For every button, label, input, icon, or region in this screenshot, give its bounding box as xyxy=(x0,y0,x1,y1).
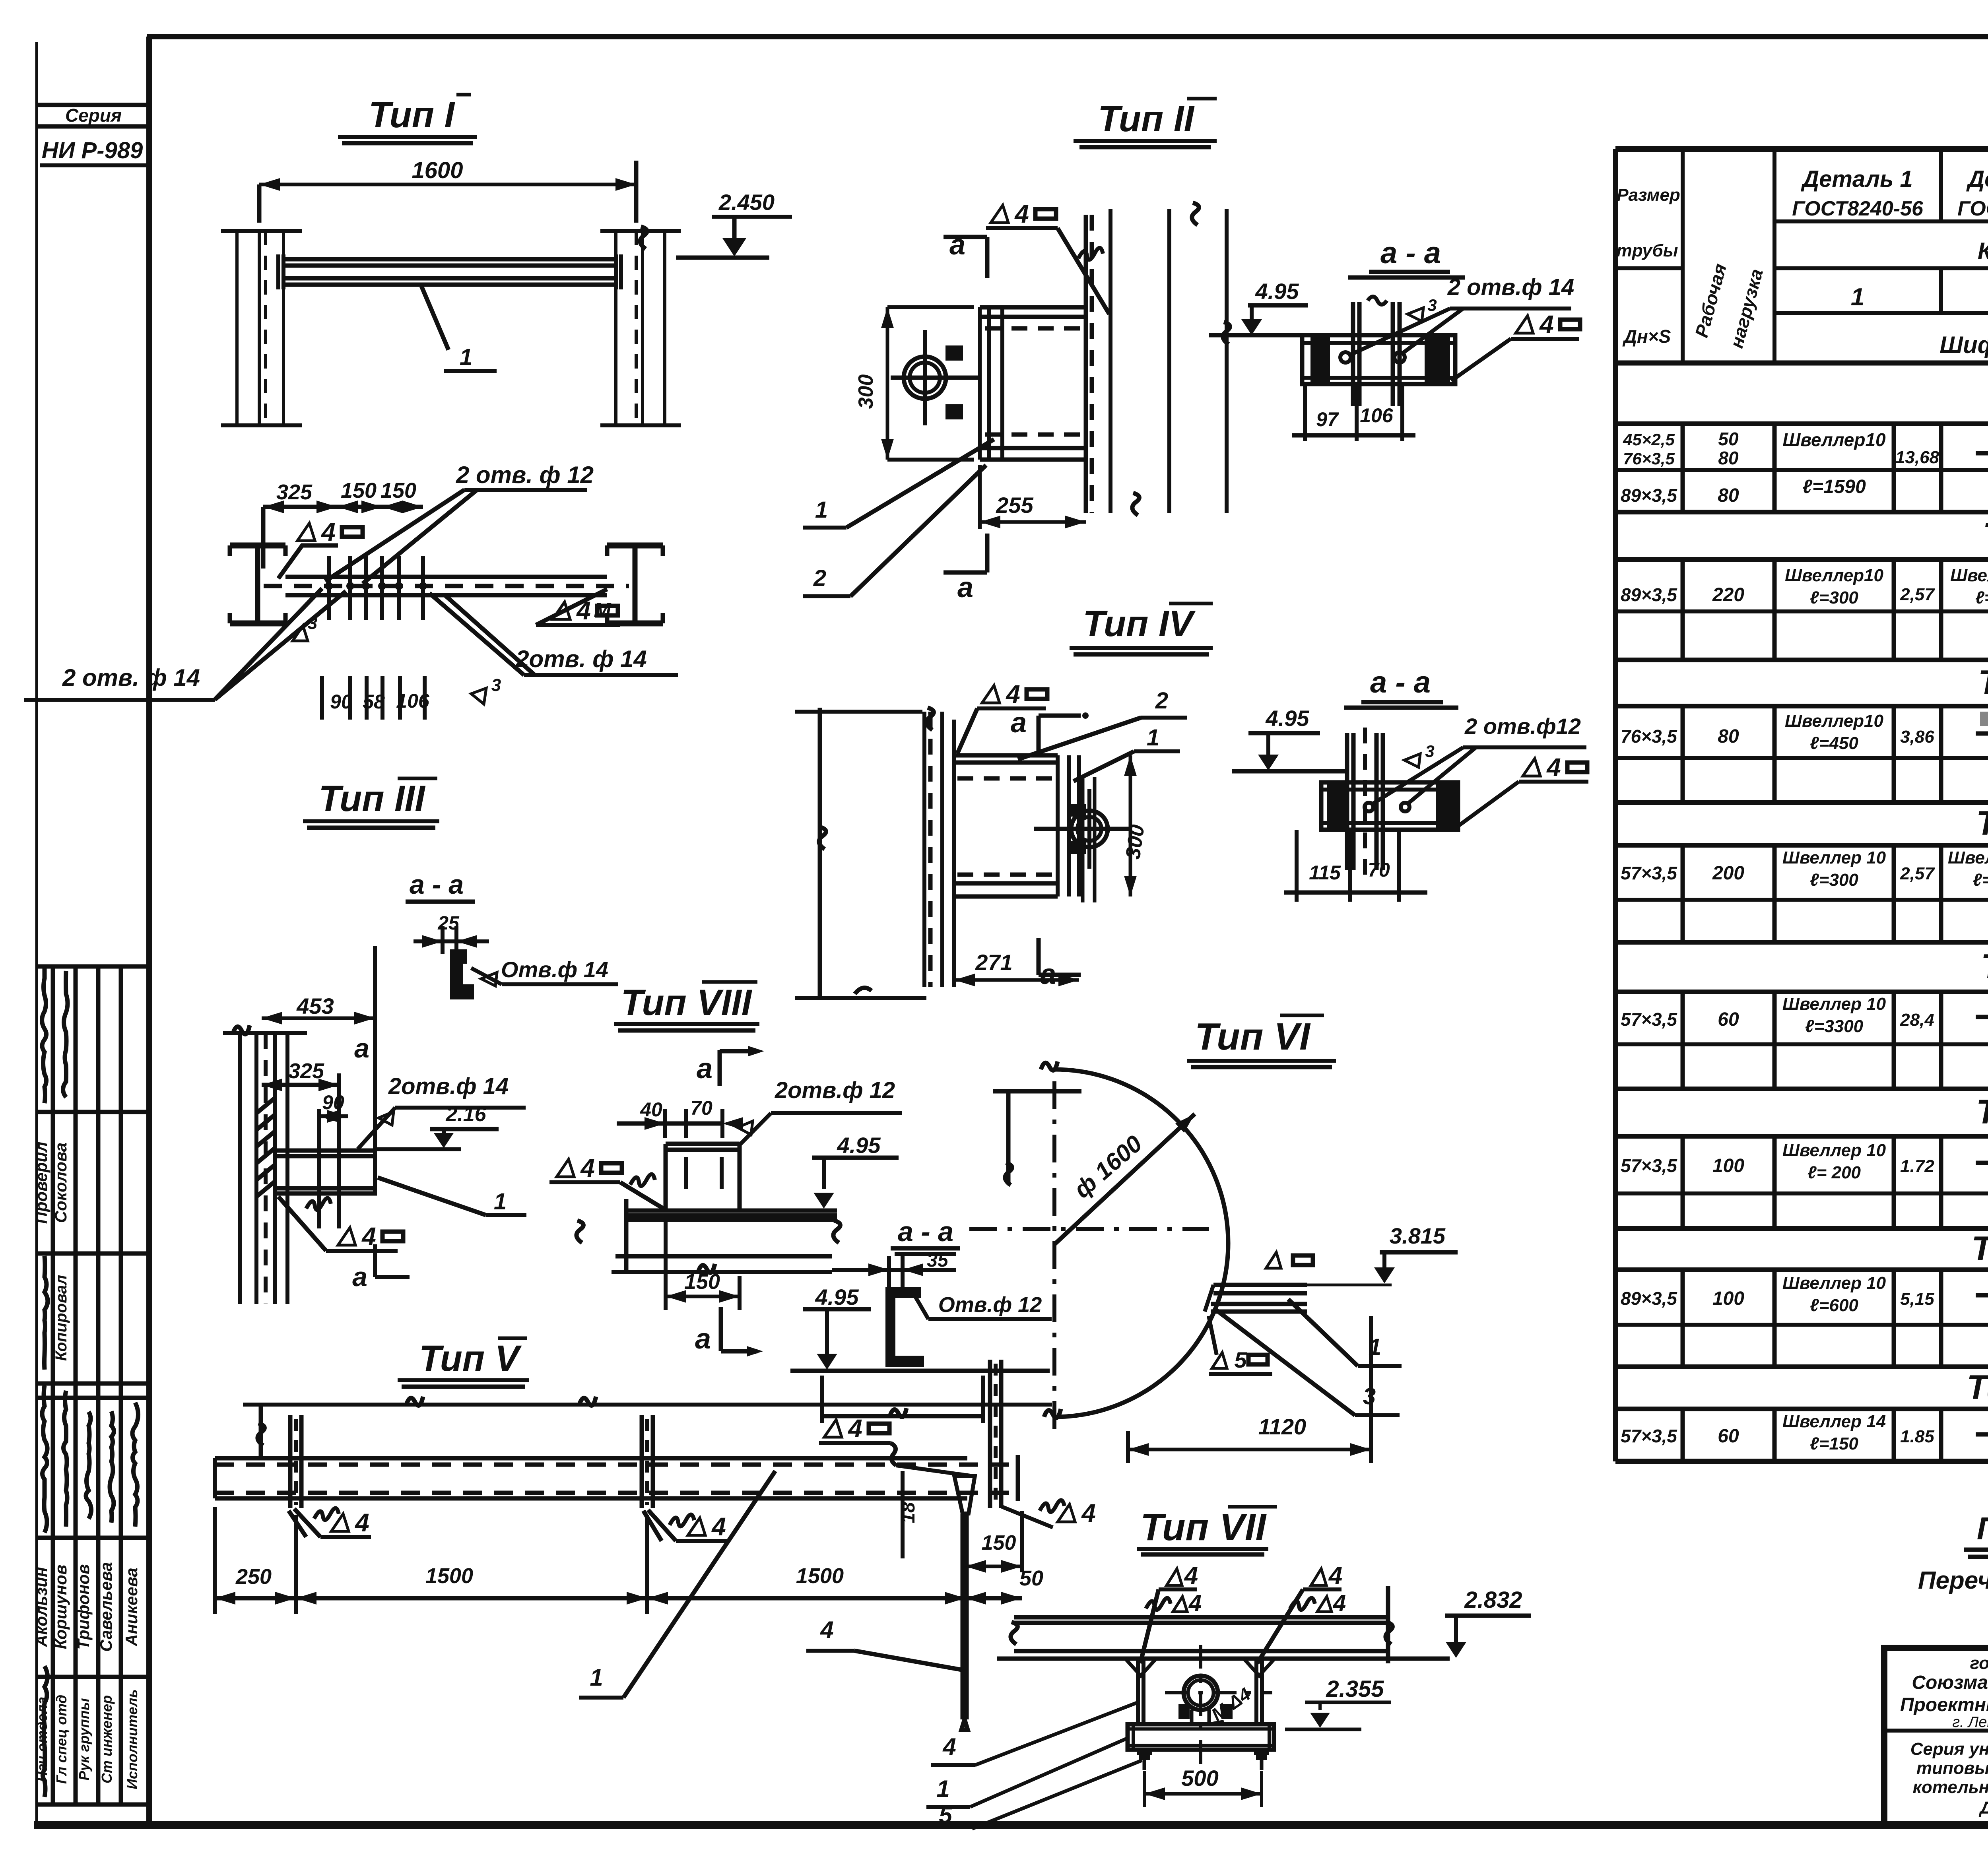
Tip III small channel section xyxy=(452,951,472,998)
svg-text:2 отв. ф 12: 2 отв. ф 12 xyxy=(456,462,594,488)
svg-text:a: a xyxy=(697,1053,712,1085)
svg-text:150: 150 xyxy=(684,1270,720,1294)
svg-text:57×3,5: 57×3,5 xyxy=(1621,863,1677,883)
svg-text:3,86: 3,86 xyxy=(1900,727,1934,747)
svg-text:ГОСТ8240-56: ГОСТ8240-56 xyxy=(1792,197,1924,220)
svg-text:57×3,5: 57×3,5 xyxy=(1621,1009,1677,1030)
svg-text:Швеллер 10: Швеллер 10 xyxy=(1948,848,1988,867)
svg-text:5: 5 xyxy=(1234,1347,1247,1372)
Tip VI bracket channel xyxy=(1213,1283,1307,1287)
svg-text:a: a xyxy=(1011,707,1027,739)
svg-text:Швеллер 10: Швеллер 10 xyxy=(1782,1273,1886,1293)
svg-text:a - a: a - a xyxy=(1380,236,1441,270)
svg-text:100: 100 xyxy=(1712,1288,1744,1309)
svg-text:ℓ=1590: ℓ=1590 xyxy=(1802,476,1866,497)
svg-text:трубы: трубы xyxy=(1617,241,1678,260)
svg-text:57×3,5: 57×3,5 xyxy=(1621,1426,1677,1446)
Tip VI vessel corner lines xyxy=(993,1089,1081,1094)
svg-text:2: 2 xyxy=(813,565,826,591)
svg-text:4: 4 xyxy=(1333,1590,1346,1616)
svg-text:ℓ=600: ℓ=600 xyxy=(1810,1296,1858,1315)
svg-text:Д К В Р: Д К В Р xyxy=(1978,1798,1988,1818)
svg-text:2 отв.ф12: 2 отв.ф12 xyxy=(1464,714,1581,739)
svg-text:Швеллер 10: Швеллер 10 xyxy=(1782,848,1886,867)
svg-text:a: a xyxy=(957,572,973,603)
title block frame xyxy=(1884,1648,1988,1824)
Tip II a-a weld tag d4 xyxy=(1516,316,1533,333)
svg-text:89×3,5: 89×3,5 xyxy=(1621,1288,1677,1309)
svg-text:Тип VI: Тип VI xyxy=(1976,1093,1988,1131)
Tip IV U-bolt clamp xyxy=(1071,811,1108,847)
svg-text:4.95: 4.95 xyxy=(837,1133,881,1158)
svg-text:ℓ=300: ℓ=300 xyxy=(1810,870,1858,890)
Tip IV a-a weld 3 xyxy=(1404,754,1420,767)
svg-text:150: 150 xyxy=(341,479,377,503)
Tip V weld 1 xyxy=(314,1508,339,1520)
svg-text:106: 106 xyxy=(1360,404,1394,427)
svg-text:1600: 1600 xyxy=(412,157,463,183)
sidebar signature scribbles xyxy=(42,966,47,1103)
svg-text:2отв.ф 14: 2отв.ф 14 xyxy=(388,1073,509,1099)
Tip I plan: right I-beam section xyxy=(607,543,663,549)
Tip V weld 2 xyxy=(670,1514,694,1526)
svg-text:г. Ленинерад 1970 г.: г. Ленинерад 1970 г. xyxy=(1952,1714,1988,1731)
Tip VI centerlines xyxy=(1052,1081,1056,1439)
svg-text:4: 4 xyxy=(320,518,336,546)
Tip IV a-a channel xyxy=(1321,782,1458,830)
Tip V stub 1 xyxy=(290,1415,301,1508)
svg-text:1: 1 xyxy=(936,1775,949,1802)
svg-text:3.815: 3.815 xyxy=(1390,1223,1446,1248)
svg-text:Тип I: Тип I xyxy=(369,95,456,135)
svg-text:4: 4 xyxy=(1328,1562,1342,1589)
svg-text:45×2,5: 45×2,5 xyxy=(1623,430,1675,449)
svg-text:4: 4 xyxy=(580,1154,595,1182)
outer paper edge line (left) xyxy=(35,42,38,1825)
svg-text:Отв.ф 12: Отв.ф 12 xyxy=(938,1293,1042,1317)
svg-text:Тип IV: Тип IV xyxy=(1083,603,1196,644)
series box mid line xyxy=(37,124,149,129)
Tip I plan hole marks xyxy=(327,556,331,620)
svg-text:500: 500 xyxy=(1181,1766,1218,1791)
svg-text:76×3,5: 76×3,5 xyxy=(1623,449,1675,468)
Tip VII beam xyxy=(1014,1615,1388,1620)
svg-text:a - a: a - a xyxy=(898,1216,953,1247)
Tip I weld 3 marks xyxy=(293,626,308,641)
svg-text:4.95: 4.95 xyxy=(1255,279,1299,304)
Tip VII centerlines xyxy=(1199,1645,1202,1767)
svg-text:80: 80 xyxy=(1718,726,1739,747)
svg-text:325: 325 xyxy=(276,480,313,504)
Tip VIII a-a channel xyxy=(887,1288,922,1365)
svg-text:a: a xyxy=(949,229,965,261)
Tip III weld M + d4 xyxy=(306,1198,331,1210)
frame bottom border xyxy=(34,1821,1988,1829)
Tip II bracket beam xyxy=(980,305,1086,310)
svg-text:Швеллер 10: Швеллер 10 xyxy=(1782,994,1886,1014)
Tip V pipe beam xyxy=(215,1456,967,1461)
svg-text:89×3,5: 89×3,5 xyxy=(1621,584,1677,605)
Tip II a-a channel xyxy=(1302,335,1455,384)
Tip III small weld+text Otv f14 xyxy=(481,972,497,986)
svg-text:ℓ=3300: ℓ=3300 xyxy=(1805,1017,1864,1036)
svg-text:89×3,5: 89×3,5 xyxy=(1621,485,1677,506)
svg-text:Серия: Серия xyxy=(65,105,122,126)
Tip II a-a holes xyxy=(1340,352,1351,363)
svg-text:Перечень опор см. лист: Перечень опор см. лист ку - 4. xyxy=(1918,1567,1988,1594)
svg-text:Тип V: Тип V xyxy=(1981,947,1988,986)
svg-text:1.85: 1.85 xyxy=(1900,1427,1934,1446)
svg-text:1: 1 xyxy=(590,1664,603,1691)
svg-text:453: 453 xyxy=(296,993,334,1019)
svg-text:3: 3 xyxy=(1425,742,1434,761)
series box top line xyxy=(37,103,149,107)
svg-text:97: 97 xyxy=(1316,408,1339,431)
svg-text:Тип III: Тип III xyxy=(318,778,426,819)
svg-text:60: 60 xyxy=(1718,1426,1739,1447)
Tip II end plate xyxy=(980,307,1002,460)
svg-text:Швеллер10: Швеллер10 xyxy=(1785,566,1884,585)
Tip IV a-a pipe lines xyxy=(1347,733,1383,870)
svg-text:255: 255 xyxy=(996,493,1033,518)
svg-text:271: 271 xyxy=(975,950,1012,975)
svg-text:2.450: 2.450 xyxy=(718,190,775,215)
svg-text:60: 60 xyxy=(1718,1009,1739,1030)
Tip I plan: left I-beam section xyxy=(230,543,285,549)
svg-text:150: 150 xyxy=(982,1531,1016,1554)
Tip III bracket channel xyxy=(275,1149,377,1153)
svg-text:1500: 1500 xyxy=(796,1564,844,1588)
svg-text:ℓ=250: ℓ=250 xyxy=(1975,588,1988,607)
svg-text:Тип VIII: Тип VIII xyxy=(1967,1368,1988,1407)
svg-text:250: 250 xyxy=(235,1565,272,1589)
svg-text:2,57: 2,57 xyxy=(1900,585,1935,604)
svg-text:4: 4 xyxy=(711,1512,726,1541)
svg-text:200: 200 xyxy=(1712,863,1744,884)
svg-text:4: 4 xyxy=(1188,1590,1202,1616)
Tip III wall hatch xyxy=(256,1098,275,1113)
Tip VI bracket top extension line xyxy=(1307,1284,1392,1286)
svg-text:90: 90 xyxy=(322,1091,344,1114)
svg-text:4: 4 xyxy=(1014,200,1029,228)
svg-text:Тип VI: Тип VI xyxy=(1195,1015,1311,1058)
svg-text:Деталь 2: Деталь 2 xyxy=(1966,166,1988,192)
svg-text:80: 80 xyxy=(1718,448,1739,468)
svg-text:Шифр изделия. Вес 1 штуки: Шифр изделия. Вес 1 штуки Б кг xyxy=(1939,332,1988,358)
svg-text:50: 50 xyxy=(1019,1566,1043,1590)
svg-text:Тип VII: Тип VII xyxy=(1971,1230,1988,1268)
svg-text:2 отв.ф 14: 2 отв.ф 14 xyxy=(1447,274,1574,300)
svg-text:Серия унифицированных: Серия унифицированных xyxy=(1910,1739,1988,1759)
svg-text:2отв.ф 12: 2отв.ф 12 xyxy=(775,1077,895,1103)
svg-text:300: 300 xyxy=(854,374,878,409)
Tip IV bracket beam xyxy=(954,753,1058,758)
svg-text:4: 4 xyxy=(1005,680,1020,708)
Tip VII weld tag left xyxy=(1167,1569,1182,1585)
Tip VI weld tag bottom d5 xyxy=(1212,1352,1227,1368)
svg-text:Тип VII: Тип VII xyxy=(1140,1506,1267,1548)
svg-text:ℓ=450: ℓ=450 xyxy=(1810,733,1858,753)
svg-text:76×3,5: 76×3,5 xyxy=(1621,726,1677,747)
svg-text:ℓ= 200: ℓ= 200 xyxy=(1807,1163,1861,1182)
frame left border xyxy=(146,37,152,1828)
svg-text:Союзмашстройпроект: Союзмашстройпроект xyxy=(1912,1672,1988,1693)
Tip VII plate xyxy=(1128,1724,1274,1750)
sidebar signature table grid xyxy=(37,964,149,969)
Tip II a-a weld 3 xyxy=(1408,308,1423,321)
svg-text:1: 1 xyxy=(1147,725,1159,751)
svg-text:Проверил: Проверил xyxy=(32,1142,50,1224)
Tip VI radius arrow f1600 xyxy=(1054,1114,1195,1244)
Tip IV weld tag d4 xyxy=(982,685,1000,703)
Tip VII hanger angles xyxy=(1138,1659,1143,1724)
svg-text:13,68: 13,68 xyxy=(1895,448,1939,467)
Tip V weld right M d4 xyxy=(1040,1500,1064,1512)
svg-text:150: 150 xyxy=(381,479,416,503)
Tip II a-a pipe lines xyxy=(1353,302,1400,406)
svg-text:57×3,5: 57×3,5 xyxy=(1621,1155,1677,1176)
svg-text:a: a xyxy=(354,1033,369,1063)
svg-text:1120: 1120 xyxy=(1258,1414,1306,1439)
Tip IV a-a holes xyxy=(1365,803,1373,811)
svg-text:4: 4 xyxy=(1184,1562,1198,1589)
Tip VIII a-a base line xyxy=(790,1369,1050,1373)
Tip IV a-a weld d4 box xyxy=(1523,759,1540,776)
svg-text:Тип VIII: Тип VIII xyxy=(621,982,753,1023)
svg-text:220: 220 xyxy=(1712,584,1744,605)
svg-text:типовых проектов: типовых проектов xyxy=(1916,1758,1988,1778)
Tip I left column xyxy=(235,231,239,425)
svg-text:1: 1 xyxy=(1851,283,1864,311)
svg-text:4: 4 xyxy=(1081,1499,1096,1527)
svg-text:80: 80 xyxy=(1718,485,1739,506)
svg-text:a: a xyxy=(352,1262,367,1292)
Tip I weld mark d4 xyxy=(297,523,315,541)
svg-text:ℓ=150: ℓ=150 xyxy=(1810,1434,1858,1453)
svg-text:ГОСТ8240-56: ГОСТ8240-56 xyxy=(1957,197,1988,220)
parts table grid xyxy=(1615,146,1988,152)
svg-text:5: 5 xyxy=(939,1802,953,1828)
Tip III wall/column xyxy=(238,1033,242,1304)
svg-text:Коршунов: Коршунов xyxy=(51,1565,70,1649)
svg-text:Швеллер 14: Швеллер 14 xyxy=(1782,1412,1886,1431)
svg-text:4.95: 4.95 xyxy=(815,1285,859,1310)
svg-text:Швеллер10: Швеллер10 xyxy=(1950,566,1988,585)
svg-text:2.832: 2.832 xyxy=(1464,1587,1522,1613)
Tip I weld mark d4-M right xyxy=(553,602,570,619)
Tip I leader 1 xyxy=(421,286,448,350)
svg-text:Дн×S: Дн×S xyxy=(1622,326,1671,347)
svg-text:ℓ=300: ℓ=300 xyxy=(1810,588,1858,607)
Tip I beam (channel) xyxy=(283,257,616,262)
svg-text:госстрой ссср: госстрой ссср xyxy=(1970,1653,1988,1673)
svg-text:4: 4 xyxy=(1546,753,1561,782)
svg-text:2.16: 2.16 xyxy=(445,1103,486,1126)
svg-text:70: 70 xyxy=(1368,859,1390,881)
Tip V stub 2 xyxy=(642,1415,653,1508)
Tip VI weld tag top xyxy=(1266,1252,1281,1268)
svg-text:Отв.ф 14: Отв.ф 14 xyxy=(501,957,608,982)
svg-text:100: 100 xyxy=(1712,1155,1744,1176)
Tip II U-bolt clamp xyxy=(904,357,946,399)
svg-text:4: 4 xyxy=(942,1733,956,1760)
svg-text:2,57: 2,57 xyxy=(1900,864,1935,883)
svg-text:1: 1 xyxy=(815,497,828,523)
Tip VII bolts below plate xyxy=(1137,1750,1152,1755)
svg-text:Примечание:: Примечание: xyxy=(1977,1511,1988,1546)
svg-text:Количество: Количество xyxy=(1978,238,1988,264)
Tip IV column xyxy=(922,712,926,987)
svg-text:3: 3 xyxy=(1427,296,1437,314)
Tip I plan beam xyxy=(285,575,607,579)
svg-text:Акользин: Акользин xyxy=(32,1567,50,1647)
svg-text:40: 40 xyxy=(640,1098,662,1121)
svg-text:a: a xyxy=(695,1323,711,1355)
Tip VII weld tag right xyxy=(1311,1569,1326,1585)
svg-text:Трифонов: Трифонов xyxy=(74,1564,93,1649)
svg-text:M: M xyxy=(594,599,612,622)
svg-text:Рук группы: Рук группы xyxy=(76,1698,92,1781)
svg-text:Тип II: Тип II xyxy=(1983,516,1988,554)
svg-text:Савельева: Савельева xyxy=(97,1562,115,1652)
svg-text:Швеллер 10: Швеллер 10 xyxy=(1782,1141,1886,1160)
svg-text:1: 1 xyxy=(460,344,472,370)
svg-text:a - a: a - a xyxy=(410,869,464,900)
Tip VIII weld tag left xyxy=(557,1159,574,1177)
svg-text:Копировал: Копировал xyxy=(52,1275,70,1361)
svg-text:300: 300 xyxy=(1121,823,1149,861)
svg-text:Ст инженер: Ст инженер xyxy=(99,1695,115,1783)
svg-text:70: 70 xyxy=(690,1097,712,1119)
svg-text:2 отв. ф 14: 2 отв. ф 14 xyxy=(62,664,200,691)
svg-text:4: 4 xyxy=(820,1616,833,1643)
Tip I right column xyxy=(614,231,617,425)
Tip V upper structure edge xyxy=(243,1403,1052,1407)
svg-text:Тип II: Тип II xyxy=(1098,99,1195,139)
svg-text:Тип III: Тип III xyxy=(1978,664,1988,702)
svg-text:котельных с котлами: котельных с котлами xyxy=(1913,1777,1988,1797)
Tip II weld tag d4 xyxy=(991,205,1008,223)
svg-text:Деталь 1: Деталь 1 xyxy=(1800,166,1913,192)
Tip IV pipe through clamp xyxy=(1083,777,1095,902)
svg-text:4: 4 xyxy=(847,1414,862,1443)
svg-text:1500: 1500 xyxy=(425,1564,473,1588)
svg-text:ℓ= 266: ℓ= 266 xyxy=(1973,870,1988,890)
svg-text:Исполнитель: Исполнитель xyxy=(124,1689,140,1789)
svg-text:1: 1 xyxy=(494,1189,507,1215)
Tip VIII stub channel xyxy=(666,1142,740,1146)
svg-text:50: 50 xyxy=(1718,429,1739,449)
svg-text:Проектный институт N1: Проектный институт N1 xyxy=(1900,1694,1988,1715)
svg-text:4.95: 4.95 xyxy=(1266,706,1310,731)
svg-text:115: 115 xyxy=(1309,862,1341,884)
svg-text:Аникеева: Аникеева xyxy=(122,1568,141,1647)
svg-text:Тип V: Тип V xyxy=(419,1338,522,1379)
svg-text:Гл спец отд: Гл спец отд xyxy=(53,1695,70,1784)
svg-text:4: 4 xyxy=(354,1508,369,1537)
Tip VIII base pipe xyxy=(626,1209,837,1213)
svg-text:5,15: 5,15 xyxy=(1900,1289,1934,1309)
svg-text:2: 2 xyxy=(1155,688,1168,714)
svg-text:Тип IV: Тип IV xyxy=(1976,804,1988,842)
svg-text:Швеллер10: Швеллер10 xyxy=(1782,429,1886,450)
Tip VII U-clamp xyxy=(1184,1676,1218,1710)
Tip IV end plate xyxy=(1058,755,1079,896)
Tip VI vessel arc f1600 xyxy=(1054,1069,1228,1417)
Tip VIII a-a bottom dim line xyxy=(820,1376,824,1423)
svg-text:3: 3 xyxy=(491,675,501,695)
Tip II column xyxy=(1084,215,1088,513)
svg-text:1.72: 1.72 xyxy=(1900,1156,1934,1176)
svg-text:2отв. ф 14: 2отв. ф 14 xyxy=(515,646,646,672)
svg-text:28,4: 28,4 xyxy=(1900,1010,1934,1030)
svg-text:Соколова: Соколова xyxy=(51,1143,70,1223)
frame top border xyxy=(147,34,1988,39)
svg-text:4: 4 xyxy=(1539,310,1554,339)
svg-text:2.355: 2.355 xyxy=(1326,1676,1384,1702)
svg-text:Размер: Размер xyxy=(1617,185,1680,205)
Tip IV big vertical dim xyxy=(818,708,822,998)
Tip V stub 3 (right) xyxy=(990,1360,1001,1508)
Tip V weld right d4 xyxy=(824,1420,842,1437)
svg-text:НИ Р-989: НИ Р-989 xyxy=(42,138,143,163)
svg-text:Швеллер10: Швеллер10 xyxy=(1785,711,1884,731)
Tip V right hanger rod xyxy=(954,1476,975,1513)
svg-text:a - a: a - a xyxy=(1370,666,1431,699)
